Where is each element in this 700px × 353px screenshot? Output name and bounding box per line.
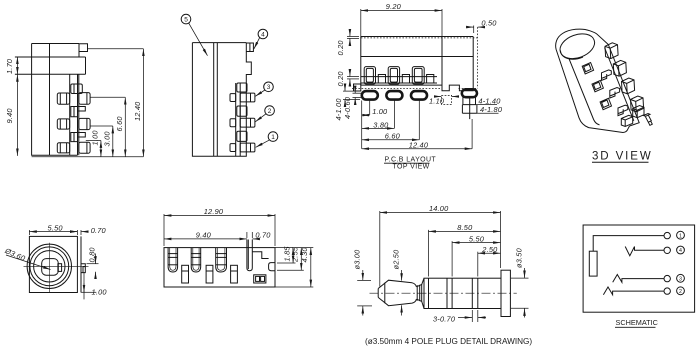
hidden edge dashed right xyxy=(477,27,479,88)
rail clip 1 xyxy=(378,75,385,84)
svg-text:1: 1 xyxy=(271,134,275,141)
dim 3-0.70 xyxy=(471,310,473,322)
bore rounded square xyxy=(42,259,59,276)
ring2 spring contact xyxy=(625,247,664,256)
body mid line xyxy=(361,56,473,58)
pin row 2 body xyxy=(240,118,255,127)
solder pad 4 xyxy=(462,89,477,97)
body inner vertical lines xyxy=(213,43,215,157)
svg-text:6.60: 6.60 xyxy=(385,132,401,141)
3d pin box 1 xyxy=(605,43,618,59)
svg-text:0.70: 0.70 xyxy=(255,230,271,239)
svg-text:12.40: 12.40 xyxy=(133,101,142,121)
svg-text:5.50: 5.50 xyxy=(48,224,64,233)
dim 5.50 xyxy=(28,230,30,235)
svg-text:4: 4 xyxy=(261,31,265,38)
pin row 2 cap xyxy=(230,119,236,127)
svg-text:ø3.00: ø3.00 xyxy=(352,249,361,270)
dim 1.00 xyxy=(361,101,363,149)
outer circle xyxy=(27,244,71,288)
dia 2.50 dim xyxy=(401,270,403,281)
dim 12.40 xyxy=(471,119,473,149)
dim 0.70 xyxy=(251,232,253,238)
3d opening inner rim xyxy=(561,51,584,60)
balloon pin4 xyxy=(677,246,685,254)
dim 12.40 xyxy=(88,48,144,50)
dim 14.00 xyxy=(379,211,381,287)
dim 1.00 xyxy=(81,291,96,293)
3d window 3 xyxy=(600,98,611,109)
dim 4-1.00 arrows xyxy=(343,90,360,92)
dia 3.00 dim xyxy=(357,279,371,281)
dim 1.10 arrows xyxy=(434,96,441,98)
svg-text:0.70: 0.70 xyxy=(91,226,107,235)
dim 5.50 xyxy=(451,241,453,276)
svg-text:6.60: 6.60 xyxy=(115,116,124,132)
tip spring contact xyxy=(603,287,664,295)
svg-text:(ø3.50mm 4 POLE PLUG DETAIL DR: (ø3.50mm 4 POLE PLUG DETAIL DRAWING) xyxy=(365,337,532,346)
ring1 spring contact xyxy=(613,275,664,283)
3d right edge inner line xyxy=(605,48,634,121)
dim 1.85 xyxy=(277,262,296,264)
pin row 1 cap xyxy=(230,94,236,102)
pin row 2 left barrel xyxy=(57,119,69,129)
smd pin 3 top view xyxy=(412,67,424,85)
svg-text:3.00: 3.00 xyxy=(103,131,112,147)
title underline xyxy=(384,162,430,164)
dim 4.30 xyxy=(275,286,313,288)
contact carrier strip xyxy=(69,74,71,155)
svg-text:8.50: 8.50 xyxy=(457,223,473,232)
mid tab 1 xyxy=(237,106,247,116)
balloon 3 xyxy=(264,82,274,92)
pin row 1 body xyxy=(240,93,255,102)
plug centerline xyxy=(370,292,517,294)
svg-text:5.50: 5.50 xyxy=(469,234,485,243)
dim 6.60 xyxy=(90,96,125,98)
pin1 terminal circle xyxy=(664,232,670,238)
contact rail lines xyxy=(361,76,437,78)
rail clip 3 xyxy=(427,75,434,84)
3d pin box 4 xyxy=(631,96,644,112)
3d rear pin tip xyxy=(644,114,653,126)
pin row 3 cap xyxy=(230,144,236,152)
solder pad 1 xyxy=(362,91,378,100)
centerline vertical xyxy=(48,243,50,292)
slot hole 2 xyxy=(206,265,213,283)
dim 6.60 xyxy=(418,101,420,140)
interior step xyxy=(252,252,268,259)
3d view label underline xyxy=(592,161,649,163)
svg-text:1.10: 1.10 xyxy=(429,97,445,106)
svg-text:9.20: 9.20 xyxy=(386,2,402,11)
net sleeve to pin1 xyxy=(593,236,664,252)
pin row 1 left barrel xyxy=(57,93,69,104)
side view body outline xyxy=(32,44,88,156)
svg-text:2: 2 xyxy=(679,289,682,295)
svg-text:ø3.50: ø3.50 xyxy=(514,247,523,268)
balloon pin1 xyxy=(677,231,685,239)
schematic label underline xyxy=(615,326,656,328)
rear view body outline xyxy=(192,43,253,157)
dim 0.20 lower xyxy=(347,76,359,78)
bottom latch window xyxy=(254,275,266,283)
svg-text:5: 5 xyxy=(184,17,188,24)
svg-text:4-1.80: 4-1.80 xyxy=(480,105,503,114)
pin2 terminal circle xyxy=(664,288,670,294)
front view body square xyxy=(29,236,77,292)
pin slot 1 xyxy=(168,248,178,272)
dim 12.90 xyxy=(163,214,165,246)
plug tip xyxy=(378,280,416,306)
pin slot 2 xyxy=(191,248,201,272)
hidden edge dashed top xyxy=(361,37,478,39)
dim 2.55 xyxy=(277,269,304,271)
pin row 3 body xyxy=(240,143,255,152)
plug shaft xyxy=(424,278,501,308)
svg-text:3.80: 3.80 xyxy=(373,120,389,129)
dim 0.70 xyxy=(80,230,82,235)
smd pin 2 top view xyxy=(388,67,399,85)
svg-text:14.00: 14.00 xyxy=(429,204,449,213)
dim 9.40 line xyxy=(16,74,18,155)
pin row 1 right barrel xyxy=(79,93,90,105)
svg-text:12.40: 12.40 xyxy=(409,141,429,150)
svg-text:4-0.60: 4-0.60 xyxy=(343,96,352,119)
svg-text:9.40: 9.40 xyxy=(5,108,14,124)
svg-text:4-1.00: 4-1.00 xyxy=(334,98,343,121)
pin row 3 left barrel xyxy=(57,143,69,153)
top terminal tab xyxy=(71,84,83,94)
tip facet edge xyxy=(384,283,386,304)
inner circle xyxy=(34,251,65,282)
3d window 1 xyxy=(582,62,593,73)
carrier strip xyxy=(235,83,237,156)
3d jack opening ellipse xyxy=(557,29,598,63)
svg-text:2.55: 2.55 xyxy=(291,246,300,263)
svg-text:1.00: 1.00 xyxy=(372,107,388,116)
svg-text:2.50: 2.50 xyxy=(481,245,498,254)
3d foot hook 3 xyxy=(618,105,628,116)
rear thin pin xyxy=(247,240,252,271)
pad4 hole outline xyxy=(462,97,477,113)
pad4 label leaders xyxy=(476,104,498,106)
bottom view body rect xyxy=(164,248,275,287)
3d pin box 2 xyxy=(613,60,626,76)
solder pad 2 xyxy=(386,91,402,100)
dim 9.20 xyxy=(360,9,362,37)
smd pin 1 top view xyxy=(364,67,375,85)
dia 3.50 dim xyxy=(511,277,529,279)
dim 3.00 xyxy=(90,125,113,127)
svg-text:0.20: 0.20 xyxy=(336,71,345,87)
balloon 1 xyxy=(268,132,278,142)
solder pad 3 xyxy=(411,91,427,100)
mid tab 2 xyxy=(237,131,247,141)
svg-text:0.20: 0.20 xyxy=(336,40,345,56)
3d pin box 3 xyxy=(622,78,635,94)
svg-text:3-0.70: 3-0.70 xyxy=(433,314,456,323)
pin row 3 right barrel xyxy=(79,142,90,153)
svg-text:1.70: 1.70 xyxy=(5,58,14,74)
3d front face divider xyxy=(569,59,599,125)
balloon pin3 xyxy=(677,274,685,282)
pin4 terminal circle xyxy=(664,247,670,253)
svg-text:9.40: 9.40 xyxy=(196,230,212,239)
side tab xyxy=(81,264,85,273)
left small tab xyxy=(354,84,361,91)
svg-text:3: 3 xyxy=(267,84,271,91)
svg-text:12.90: 12.90 xyxy=(204,207,224,216)
sleeve contact bar xyxy=(589,251,597,276)
dia 3.60 leader xyxy=(6,255,51,270)
3d foot hook 2 xyxy=(610,88,620,99)
groove ring 2 xyxy=(471,278,473,308)
slot hole 3 xyxy=(231,265,238,283)
dim 1.00 xyxy=(86,140,101,142)
balloon pin2 xyxy=(677,287,685,295)
balloon 4 xyxy=(258,29,268,39)
dim 1.70 line xyxy=(16,57,18,75)
svg-text:1.00: 1.00 xyxy=(91,130,100,146)
dim 3.80 xyxy=(393,101,395,129)
body inner vertical line xyxy=(49,44,51,156)
mid tab 1 xyxy=(71,107,86,117)
svg-text:3D VIEW: 3D VIEW xyxy=(592,151,653,163)
3d body silhouette xyxy=(556,29,640,132)
flange xyxy=(501,270,510,316)
dim 8.50 xyxy=(428,230,430,277)
rail clip 2 xyxy=(402,75,409,84)
contact slot xyxy=(58,264,62,272)
pcb body outline xyxy=(361,37,473,91)
tip neck rings xyxy=(416,285,418,301)
svg-text:0.80: 0.80 xyxy=(87,247,96,263)
pin row 2 right barrel xyxy=(79,118,90,129)
svg-text:0.50: 0.50 xyxy=(481,19,497,28)
3d bottom foot bracket xyxy=(621,115,632,126)
svg-text:SCHEMATIC: SCHEMATIC xyxy=(616,318,658,327)
hidden edge dashed bottom xyxy=(352,87,443,89)
svg-text:4: 4 xyxy=(679,248,682,254)
side strip xyxy=(80,236,82,292)
svg-text:TOP VIEW: TOP VIEW xyxy=(393,164,430,171)
top terminal tab xyxy=(237,83,247,92)
right clip tab xyxy=(269,263,275,271)
svg-text:4.30: 4.30 xyxy=(300,247,309,263)
slot hole 1 xyxy=(182,265,189,283)
svg-text:1.00: 1.00 xyxy=(92,288,108,297)
mid tab 2 xyxy=(71,133,86,142)
centerline horizontal xyxy=(24,265,89,267)
svg-text:ø2.50: ø2.50 xyxy=(391,249,400,270)
groove ring 1 xyxy=(446,278,448,308)
3d foot hook 1 xyxy=(602,70,612,81)
dim 4-0.60 arrows xyxy=(353,92,362,94)
dim 9.40 xyxy=(246,232,248,238)
balloon 2 xyxy=(265,106,275,116)
3d rear pin bracket xyxy=(633,106,644,118)
dashed square 1.10 xyxy=(441,95,451,104)
dim 0.50 xyxy=(473,26,475,34)
pin3 terminal circle xyxy=(664,275,670,281)
svg-text:3: 3 xyxy=(679,276,682,282)
3d window 2 xyxy=(592,80,603,91)
svg-text:1: 1 xyxy=(679,233,682,239)
pin slot 3 xyxy=(216,248,227,272)
svg-text:2: 2 xyxy=(268,108,272,115)
bottom extension line xyxy=(32,156,144,158)
schematic box xyxy=(583,225,695,312)
balloon 5 xyxy=(181,14,191,24)
dim 0.20 top xyxy=(347,36,359,38)
middle circle xyxy=(30,247,69,286)
dim 2.50 xyxy=(477,252,479,277)
dim 0.80 xyxy=(87,263,99,265)
